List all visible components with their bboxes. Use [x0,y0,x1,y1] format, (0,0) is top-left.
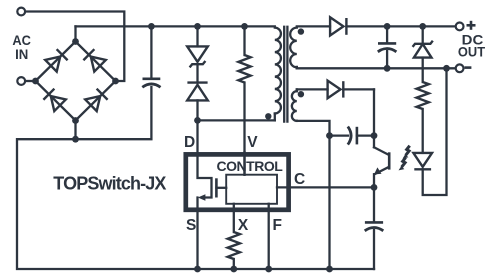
capacitor: output cap [386,26,388,42]
node: F pin on source rail [265,266,272,273]
node: bridge bottom to return rail [72,136,79,143]
node: clamp top on rail [194,23,201,30]
svg-text:F: F [273,217,282,234]
output rectifier diode D2 [330,17,343,35]
label DC OUT [467,24,476,27]
node: zener top on + rail [419,23,426,30]
zener VR2 output sense (cathode up) [422,26,424,43]
svg-text:V: V [247,134,258,151]
node: R1 top on rail [241,23,248,30]
transformer bias winding polarity dot [298,91,304,97]
bridge diode top-right (points to top node) [83,49,106,72]
wire: secondary bottom minus rail [297,67,456,69]
optocoupler phototransistor [373,89,375,147]
node: bridge right junction [112,78,119,85]
svg-text:X: X [238,217,249,234]
terminal: DC out - [456,64,464,72]
terminal: AC input bottom [17,77,25,85]
node: input cap top on rail [148,23,155,30]
capacitor: bias supply cap [330,134,349,136]
wire: secondary top to output diode [297,25,330,27]
wire: bridge top to HV rail [74,26,76,41]
transformer secondary winding [290,28,297,68]
MOSFET drain-source path [198,155,212,198]
node: opto emitter on C wire [371,184,378,191]
wire: S pin down to source rail [196,198,198,270]
node: bridge top junction [72,38,79,45]
optocoupler LED (anode up) [413,153,432,167]
resistor R1 line-sense to V pin [243,26,245,55]
node: opto collector / bias cap junction [371,132,378,139]
terminal: AC input top [17,8,25,16]
capacitor: control pin cap [373,187,375,221]
node: bridge bottom junction [72,117,79,124]
bridge rectifier diamond wires [36,42,116,121]
wire: AC bottom terminal to bridge left node [25,80,36,82]
zener clamp VR1 (blocking zener, anode up) [196,26,198,46]
svg-text:OUT: OUT [458,43,486,59]
node: LED return on minus rail [443,65,450,72]
transformer secondary polarity dot [298,28,304,34]
svg-text:CONTROL: CONTROL [217,158,284,174]
wire: return wire to input cap [76,87,152,139]
wire: X pin from control block [233,204,235,232]
TOPSwitch-JX IC outline box [186,154,289,209]
control block U1 [226,175,277,204]
bridge diode top-left (points to top node) [45,49,68,72]
svg-text:S: S [186,217,196,234]
wire: output diode to + terminal [346,25,456,27]
node: output cap top [384,23,391,30]
node: bridge left junction [32,78,39,85]
capacitor: input bulk cap [150,26,152,78]
svg-text:TOPSwitch-JX: TOPSwitch-JX [53,173,166,193]
node: bias return to cap [326,132,333,139]
wire: AC top terminal to bridge right node [25,12,125,82]
wire: bias diode output to opto collector [297,88,328,90]
wire: C pin to opto emitter [277,186,374,188]
resistor R3 on X pin [228,232,240,259]
transformer core [283,27,285,122]
bias rectifier diode D3 [328,81,341,99]
node: X resistor on source rail [230,266,237,273]
wire: V pin into control block [243,152,245,175]
bridge diode bottom-right (points to right node) [85,88,108,111]
svg-text:IN: IN [15,46,28,62]
wire: bias winding return [297,121,330,269]
wire: HV+ top rail to transformer primary [76,25,275,27]
wire: gate to control block [216,187,226,189]
bridge diode bottom-left (points to left node) [43,88,66,111]
svg-text:D: D [184,134,195,151]
node: output cap bottom [384,65,391,72]
resistor R2 LED series [417,82,429,109]
wire: bridge bottom return [17,121,374,270]
node: bias return on source rail [326,266,333,273]
wire: drain node down to D pin [196,120,198,155]
transformer bias winding [296,89,298,91]
optocoupler light arrows [399,146,410,171]
node: S pin on source rail [194,266,201,273]
MOSFET gate bar [215,178,218,197]
terminal: DC out + [456,23,464,31]
wire: drain node to primary bottom [198,119,275,121]
node: clamp to drain junction [194,117,201,124]
transformer primary polarity dot [265,113,271,119]
transformer T1 primary winding [275,28,281,114]
blocking diode D1 (cathode up) [187,81,207,83]
svg-text:C: C [294,171,305,188]
wire: F pin to source rail [268,204,270,269]
